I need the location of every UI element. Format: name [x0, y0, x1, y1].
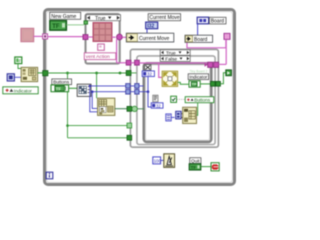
svg-text:True: True	[95, 16, 106, 22]
junction dot blue on B2	[91, 90, 94, 93]
wire green: New Game TF to case1 selector terminal	[67, 24, 84, 26]
svg-text:Buttons: Buttons	[194, 97, 211, 102]
label "Buttons"	[52, 79, 72, 85]
label "Current Move" (top)	[148, 14, 180, 22]
wire green: mid-low run to case2 tunnel	[68, 125, 128, 127]
tunnel (dark green) on case2 left border low	[127, 135, 132, 140]
svg-text:Tiny Board 2: Tiny Board 2	[190, 69, 208, 73]
svg-text:TF: TF	[56, 86, 62, 91]
dotted link from check node to Buttons label	[177, 98, 185, 100]
svg-text:Quit: Quit	[191, 158, 200, 163]
tunnel blue B2 on case3	[135, 90, 139, 95]
junction dot blue	[147, 90, 150, 93]
tunnel (dark green) on case3/case2 right border	[216, 81, 221, 86]
wires dark: icon2 into property node	[181, 114, 183, 118]
green continue arrow box	[226, 70, 232, 76]
tunnel (dark green) on inner loop right border	[211, 81, 216, 86]
Quit boolean control terminal	[189, 164, 201, 170]
svg-text:Buttons: Buttons	[53, 80, 70, 85]
label "Indicator" (inner loop)	[188, 74, 208, 80]
case structure CASE2 border	[130, 49, 218, 147]
wire green: Quit to loop condition	[201, 166, 211, 168]
Board local variable	[185, 35, 213, 43]
case3 selector label "False"	[160, 56, 190, 63]
svg-text:32: 32	[156, 103, 161, 108]
svg-text:TF: TF	[192, 83, 197, 87]
case2 selector label "True"	[160, 50, 190, 57]
wire pink: case1 tunnel to event icon	[88, 36, 93, 38]
M mouse node	[153, 95, 158, 102]
wire green stub inside case2	[131, 72, 137, 74]
label "Buttons" with glyphs (green border)	[185, 97, 214, 103]
event action cluster icon (inside case1)	[93, 23, 112, 42]
label "Indicator" with glyphs (green border, outside loop)	[3, 87, 38, 94]
junction dot on green wire	[95, 72, 98, 75]
wire green: yellow icon to Indicator control	[178, 82, 189, 84]
I32 local read box (under X node)	[142, 71, 154, 77]
svg-text:Indicator: Indicator	[189, 74, 207, 79]
svg-text:False: False	[165, 57, 177, 63]
Indicator boolean array control (inner loop)	[189, 81, 200, 87]
tunnel junction (magenta circle) on case1 right border	[117, 34, 123, 40]
tunnel (magenta) on inner loop right border	[208, 62, 213, 67]
junction dot blue on B1	[89, 85, 91, 87]
svg-text:New Game: New Game	[51, 14, 76, 20]
green selector terminal on case1 border	[84, 21, 88, 24]
wire pink: drop to yellow icon	[159, 64, 163, 78]
wire pink from right tunnels to vertical riser	[219, 63, 227, 65]
wire blue: constant to metronome	[161, 159, 164, 161]
label "New Game"	[50, 12, 81, 19]
wire pink vertical riser on right side	[225, 40, 227, 65]
svg-text:Indicator: Indicator	[14, 88, 32, 93]
tunnel (light green) on case2 left border	[127, 123, 132, 128]
tunnel blue B1 on case3	[135, 84, 139, 89]
case structure CASE1 (New Game) border	[86, 14, 120, 64]
blue cluster icon pair	[166, 114, 171, 121]
inner while loop	[144, 63, 212, 142]
wire blue: branch down to property node left	[92, 92, 97, 109]
wire green: long branch down from indicator wire	[67, 73, 69, 138]
tunnel (magenta) on case1 left border	[83, 35, 88, 40]
case structure CASE3 border	[137, 56, 215, 145]
tunnel (light green circle) on case3 left	[132, 106, 137, 111]
svg-text:Board: Board	[194, 37, 208, 43]
tunnel (green) on case2 left border	[126, 71, 131, 76]
check-mark ok node	[171, 96, 177, 102]
svg-text:F: F	[19, 59, 22, 64]
New Game boolean control terminal TF	[50, 21, 67, 31]
tunnel (magenta) on case3 left border	[135, 60, 140, 65]
svg-text:TF: TF	[191, 165, 197, 170]
wire green: Buttons to array node	[69, 87, 78, 89]
junction dot on indicator wire	[66, 72, 69, 75]
svg-text:TF: TF	[52, 24, 60, 30]
tunnel (magenta) on case3/case2 right border	[214, 62, 219, 67]
svg-text:100: 100	[154, 159, 162, 164]
wire green stub into inner loop	[137, 108, 144, 110]
wire green: Indicator control out to tunnels	[200, 83, 210, 85]
wire pink: event icon to tunnel circle	[112, 36, 116, 38]
wire blue stub from pair	[171, 116, 174, 118]
outer while loop	[45, 10, 235, 185]
wire blue: Current Move terminal down to local	[146, 29, 148, 34]
tunnel (green) on outer loop left border	[43, 71, 48, 76]
svg-text:Board: Board	[211, 19, 225, 25]
middle property node (picture)	[98, 98, 115, 115]
wire green: property node out to outer loop tunnel	[38, 72, 43, 74]
tunnel (dark green) on case2 left	[127, 106, 132, 111]
wire blue B2: array node out lower	[91, 91, 126, 93]
label "Board" (top)	[209, 17, 226, 24]
wire green: bottom run to case2 tunnel	[68, 137, 128, 139]
Board array terminal	[197, 17, 208, 24]
tunnel (magenta) on case2 left border	[126, 60, 131, 65]
svg-text:32: 32	[147, 72, 152, 77]
svg-text:vent Action: vent Action	[86, 54, 110, 60]
boolean False constant (outside loop left)	[15, 57, 22, 64]
wire pink between case2/case3 tunnels	[131, 62, 135, 64]
Current Move I32 control terminal	[146, 22, 158, 29]
wire pink: horizontal into case2/case3 tunnels	[117, 62, 127, 64]
wire blue: reference icon to property node	[14, 76, 21, 78]
wire green: Buttons label down to property node	[197, 103, 198, 116]
blue reference icon (outside loop left)	[7, 74, 14, 81]
wait-until-next-ms metronome icon	[164, 154, 175, 168]
wait ms numeric constant	[153, 157, 162, 164]
tunnel blue B1 on case2	[126, 84, 130, 89]
wire blue: second branch down to property node left	[90, 86, 98, 112]
wire pink across inner loop top area	[139, 62, 208, 64]
iteration terminal i	[46, 172, 53, 179]
bottom-right property node (Buttons)	[183, 107, 197, 123]
pink picture constant (top-left, outside loop)	[21, 28, 34, 41]
Indicator property node (outside loop)	[21, 67, 37, 81]
svg-text:I32: I32	[147, 23, 154, 29]
unbundle X node (inner loop top-left)	[145, 65, 151, 71]
wire blue B2 into inner loop	[130, 91, 148, 93]
wire pink: tunnel to case1 tunnel	[48, 36, 84, 38]
loop condition stop terminal	[211, 163, 219, 171]
wire blue B1 between tunnels	[130, 85, 144, 87]
wire blue: Board terminal down to local	[197, 24, 199, 35]
wire pink: Board local down-right path	[187, 40, 226, 48]
Buttons boolean array control terminal	[51, 85, 69, 92]
label "vent Action" (Event Action, pink)	[84, 53, 116, 60]
blue reference icon 2	[176, 111, 181, 119]
pink unbundle chip below event icon	[98, 44, 105, 50]
junction dot mid branch	[66, 124, 69, 127]
wire green: constant down into Indicator property node	[18, 64, 21, 69]
junction dot on green wire 2	[119, 72, 122, 75]
boolean array-to-number node	[77, 84, 91, 96]
case1 selector label "True"	[86, 15, 120, 22]
wire blue: down to M/I32 row	[148, 92, 151, 107]
wire green: long run to case2 tunnel	[48, 72, 126, 74]
wire pink: circle to Current Move local	[122, 36, 126, 38]
label "Quit"	[190, 158, 201, 164]
svg-text:Current Move: Current Move	[149, 15, 180, 21]
wire pink: constant to outer-loop tunnel	[34, 35, 43, 37]
tunnel (magenta) on outer loop left border	[43, 34, 48, 39]
wire green: tunnels up to continue arrow	[220, 73, 225, 84]
wire blue B1: array node out upper	[91, 85, 126, 87]
svg-text:Current Move: Current Move	[139, 36, 170, 42]
Current Move local variable	[126, 33, 174, 42]
wire blue: I32 box down	[147, 77, 149, 92]
wire green: branch down into middle property node top	[96, 73, 98, 98]
replace-array yellow icon	[162, 71, 177, 86]
wire green: property node output to tunnels	[115, 108, 127, 110]
wire pink: vertical branch down from circle	[116, 39, 118, 63]
tunnel (magenta) on outer loop right border	[224, 33, 230, 39]
tunnel blue B2 on case2	[126, 90, 130, 95]
I32 wide box (mouse coords)	[151, 103, 163, 109]
